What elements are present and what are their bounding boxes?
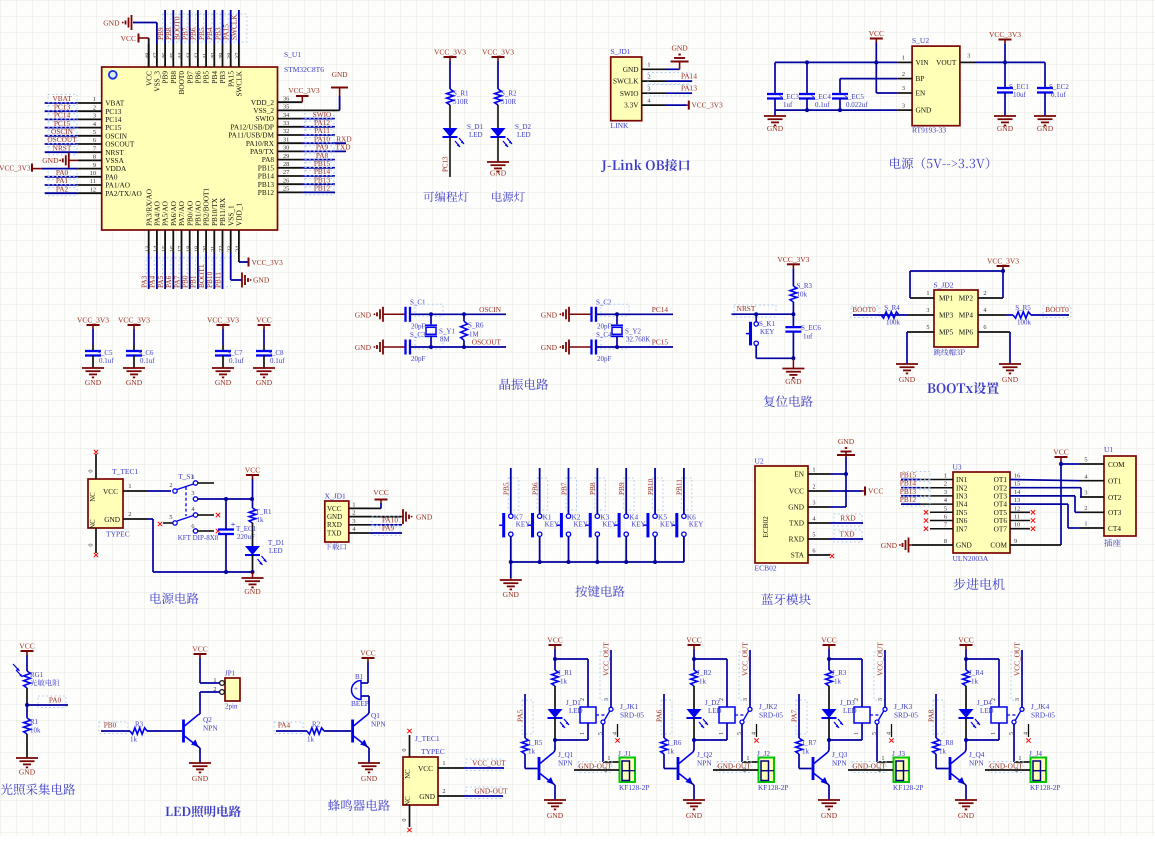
svg-text:GND: GND — [671, 44, 688, 53]
U1 pin 40 PB4 — [213, 44, 215, 67]
svg-text:LINK: LINK — [611, 121, 629, 130]
U1 socket pin 1 CT4 — [1080, 527, 1104, 529]
wire + net label PA3 — [146, 258, 157, 287]
svg-text:GND: GND — [547, 811, 564, 820]
S_U2 pin 2 BP — [897, 78, 912, 80]
wire + net label PA2 — [48, 185, 77, 196]
svg-text:7: 7 — [944, 522, 947, 529]
U3 pin 1 IN1 — [920, 479, 953, 481]
svg-text:RXD: RXD — [327, 521, 342, 529]
wire — [683, 536, 685, 562]
wire + net label BOOT1 — [204, 258, 215, 287]
svg-text:MP1: MP1 — [939, 294, 954, 303]
svg-text:S_C6: S_C6 — [138, 349, 154, 357]
svg-text:2: 2 — [604, 767, 607, 774]
svg-text:11: 11 — [90, 178, 96, 185]
svg-text:0.1uf: 0.1uf — [140, 357, 155, 365]
svg-text:S_EC6: S_EC6 — [801, 324, 821, 332]
svg-text:2: 2 — [719, 698, 725, 701]
svg-text:PB12: PB12 — [900, 495, 917, 504]
svg-text:1: 1 — [902, 55, 905, 62]
svg-text:ECB02: ECB02 — [761, 516, 770, 538]
svg-text:47: 47 — [153, 53, 160, 59]
LED diode S_D1 — [443, 128, 458, 137]
T_TEC1 pin 2 wire — [123, 518, 148, 520]
U1 pin 39 PB3 — [222, 44, 224, 67]
wire OT4 — [1010, 503, 1068, 505]
U1 pin 36 VDD_2 — [278, 101, 303, 103]
svg-text:1: 1 — [93, 96, 96, 103]
svg-text:VCC_OUT: VCC_OUT — [472, 759, 506, 768]
U2 pin 6 STA — [808, 554, 830, 556]
U3 pin 7 IN7 — [930, 528, 953, 530]
svg-text:3: 3 — [902, 85, 905, 92]
svg-text:0: 0 — [401, 748, 408, 751]
S_JD1 pin 4 3.3V — [642, 104, 666, 106]
J_TEC1 pin 2 wire + net label GND-OUT — [438, 795, 463, 797]
svg-text:1uf: 1uf — [803, 333, 813, 341]
power VCC at U1 pin 48 — [148, 38, 150, 67]
wire — [828, 649, 830, 659]
svg-text:VCC: VCC — [103, 487, 118, 496]
U1 pin 31 PA10/RX — [278, 142, 303, 144]
U1 pin 13 PA3/RX/AO — [148, 230, 150, 253]
wire collector — [554, 750, 555, 752]
U1 socket pin 5 COM — [1080, 463, 1104, 465]
crystal S_Y2 32.768K — [616, 314, 618, 324]
wire + net label OSCIN — [48, 127, 77, 138]
svg-text:3.3V: 3.3V — [624, 101, 639, 110]
svg-text:J_TEC1: J_TEC1 — [415, 734, 440, 743]
svg-text:7: 7 — [93, 145, 96, 152]
svg-text:GND: GND — [244, 587, 261, 596]
ground at U1 pin 35 — [302, 109, 339, 111]
U1 pin 44 BOOT0 — [181, 44, 183, 67]
svg-text:1: 1 — [647, 62, 650, 69]
caption 按键电路 — [575, 585, 624, 597]
resistor R2 1k + net label PA4 — [274, 722, 303, 734]
power VCC_3V3 above S_JD2 — [997, 265, 1010, 267]
svg-text:LED: LED — [469, 131, 483, 139]
svg-text:GND: GND — [192, 774, 209, 783]
transistor J_Q3 NPN — [812, 757, 815, 780]
svg-text:8: 8 — [93, 154, 96, 161]
svg-text:BOOT0: BOOT0 — [1045, 305, 1069, 314]
S_JD2 pin 1 wire to VCC_3V3 — [910, 297, 934, 299]
resistor J_R2 1k — [693, 659, 695, 670]
power VCC_3V3 above S_R1 — [444, 56, 457, 58]
svg-text:KEY: KEY — [689, 521, 703, 529]
wire — [539, 536, 541, 562]
wire + net label GND-OUT — [852, 762, 886, 773]
wire + net label PA9 — [372, 525, 400, 536]
svg-text:S_C3: S_C3 — [410, 331, 426, 339]
wire — [497, 61, 499, 89]
svg-text:16: 16 — [1014, 473, 1020, 480]
power VCC above J_R2 — [688, 644, 701, 646]
no-connect on U3 output — [1010, 511, 1030, 513]
ground at U3 pin 8 — [909, 544, 913, 546]
svg-text:20pF: 20pF — [597, 322, 612, 330]
no-connect at U2 pin 6 STA — [830, 554, 834, 558]
svg-text:32.768K: 32.768K — [626, 335, 650, 343]
svg-text:KEY: KEY — [631, 521, 645, 529]
connector S_JD1 J-Link header — [611, 57, 642, 121]
svg-text:GND: GND — [785, 377, 802, 386]
wire + rotated net label VCC_OUT — [874, 652, 885, 700]
wire + net label PA0 — [48, 168, 77, 179]
wire + rotated net label VCC_OUT — [1011, 652, 1022, 700]
wire + net label BOOT0 — [179, 14, 190, 42]
svg-text:1: 1 — [719, 732, 725, 735]
svg-text:LED: LED — [269, 547, 283, 555]
wire — [449, 105, 451, 128]
capacitor S_EC5 0.022uf — [832, 93, 848, 95]
svg-text:+: + — [231, 519, 236, 529]
svg-text:1k: 1k — [699, 678, 707, 686]
svg-text:0: 0 — [401, 818, 408, 821]
svg-text:VCC: VCC — [245, 466, 260, 475]
svg-text:TYPEC: TYPEC — [421, 747, 445, 756]
ground of power circuit — [251, 570, 255, 574]
caption 蜂鸣器电路 — [328, 799, 390, 811]
wire + net label TXD — [834, 530, 862, 542]
U1 pin 2 PC13 — [78, 110, 102, 112]
svg-text:J_R1: J_R1 — [558, 669, 573, 677]
svg-text:12: 12 — [1014, 505, 1020, 512]
svg-text:GND: GND — [419, 792, 435, 801]
wire VCC to COM — [1060, 461, 1062, 545]
wire emitter to ground — [825, 782, 830, 785]
T_TEC1 pin 1 wire — [123, 490, 148, 492]
svg-text:VCC_3V3: VCC_3V3 — [207, 316, 239, 325]
svg-text:VCC: VCC — [869, 29, 884, 38]
svg-text:COM: COM — [1108, 460, 1125, 469]
power VCC at U2 pin 2 — [830, 490, 862, 492]
svg-text:NPN: NPN — [697, 759, 712, 768]
svg-text:PC14: PC14 — [652, 305, 669, 314]
relay coil J_JK4 SRD-05 — [991, 707, 1007, 723]
svg-text:U3: U3 — [953, 463, 962, 472]
wire emitter to ground — [364, 744, 369, 748]
svg-text:VCC_3V3: VCC_3V3 — [434, 48, 466, 57]
svg-text:GND: GND — [103, 18, 120, 27]
key K4 KEY — [624, 514, 628, 518]
svg-text:3: 3 — [1084, 490, 1087, 497]
svg-text:39: 39 — [218, 53, 225, 59]
ground at U1 pin 23 VSS_1 — [230, 253, 232, 280]
wire + net label PC15 — [48, 119, 77, 130]
svg-text:J_D3: J_D3 — [840, 699, 855, 707]
power VCC at X_JD1 pin 1 — [370, 507, 381, 509]
U1 pin 45 PB8 — [172, 44, 174, 67]
svg-text:13: 13 — [144, 246, 151, 252]
ground under S_D2 — [497, 137, 499, 162]
relay switch of J_JK1 — [596, 714, 607, 716]
terminal J_J4 KF128-2P — [1031, 758, 1047, 783]
svg-text:STM32C8T6: STM32C8T6 — [284, 65, 324, 74]
wire + net label PA1 — [48, 177, 77, 188]
wire VIN rail — [775, 61, 897, 63]
svg-text:23: 23 — [226, 246, 233, 252]
svg-text:ULN2003A: ULN2003A — [953, 554, 989, 563]
U1 pin 48 VCC — [148, 44, 150, 67]
svg-text:J_J4: J_J4 — [1029, 749, 1042, 758]
svg-text:34: 34 — [283, 112, 290, 119]
U1 pin 6 OSCOUT — [78, 143, 102, 145]
wire + net label OSCIN — [415, 304, 443, 316]
svg-text:EN: EN — [916, 89, 926, 98]
svg-text:28: 28 — [283, 161, 289, 168]
ground under reset circuit — [792, 358, 794, 368]
svg-text:SWCLK: SWCLK — [235, 70, 244, 96]
svg-text:NPN: NPN — [969, 759, 984, 768]
svg-text:5: 5 — [1084, 457, 1087, 464]
power VCC above J_R1 — [549, 644, 562, 646]
svg-text:OT1: OT1 — [1108, 477, 1122, 486]
svg-text:3: 3 — [944, 489, 947, 496]
svg-text:0: 0 — [88, 543, 95, 546]
svg-text:PA0: PA0 — [49, 696, 62, 705]
wire + net label PC13 — [449, 137, 451, 177]
power VCC_3V3 above S_C5 — [87, 324, 100, 326]
U3 pin 8 GND — [912, 544, 953, 546]
capacitor S_EC4 0.1uf — [806, 62, 808, 94]
transistor Q2 NPN — [182, 720, 185, 743]
resistor J_R4 1k — [965, 659, 967, 670]
U1 pin 41 PB5 — [205, 44, 207, 67]
U1 pin 12 PA2/TX/AO — [78, 192, 102, 194]
svg-text:22: 22 — [218, 246, 225, 252]
wire contact 5 to terminal — [1013, 724, 1015, 762]
U1 pin 5 OSCIN — [78, 135, 102, 137]
wire — [755, 346, 757, 359]
resistor S_R3 10k — [790, 286, 797, 302]
svg-text:GND: GND — [42, 156, 59, 165]
svg-text:2: 2 — [991, 698, 997, 701]
svg-text:R1: R1 — [30, 718, 39, 726]
wire + net label PB10 — [653, 478, 664, 510]
svg-text:1: 1 — [944, 473, 947, 480]
svg-text:VCC_3V3: VCC_3V3 — [118, 316, 150, 325]
caption 电源灯 — [492, 191, 525, 202]
svg-text:VCC: VCC — [789, 487, 804, 496]
resistor S_R1 510R — [447, 89, 454, 105]
svg-text:GND: GND — [1002, 375, 1019, 384]
svg-text:MP5: MP5 — [939, 328, 954, 337]
wire key bus — [511, 561, 684, 563]
capacitor S_C2 20pF — [590, 307, 592, 322]
svg-text:GND: GND — [104, 515, 120, 524]
wire collector — [965, 750, 966, 752]
wire contact 5 to terminal — [741, 724, 743, 762]
svg-text:GND: GND — [355, 343, 372, 352]
svg-text:PB11: PB11 — [213, 272, 222, 288]
svg-text:15: 15 — [161, 246, 168, 252]
U1 pin 19 PB1/AO — [197, 230, 199, 253]
svg-text:+: + — [354, 685, 358, 693]
svg-text:SRD-05: SRD-05 — [759, 711, 783, 720]
svg-text:GND: GND — [490, 169, 507, 178]
svg-text:2: 2 — [1084, 505, 1087, 512]
wire + net label PB13 — [305, 176, 334, 187]
svg-text:1k: 1k — [560, 678, 568, 686]
connector X_JD1 body — [325, 501, 349, 542]
wire — [654, 536, 656, 562]
wire + net label PA7 — [179, 258, 190, 287]
svg-text:38: 38 — [226, 53, 233, 59]
svg-text:5: 5 — [812, 531, 815, 538]
resistor S_R5 100k — [1006, 314, 1013, 316]
svg-text:0: 0 — [88, 469, 95, 472]
svg-text:MP2: MP2 — [959, 294, 974, 303]
S_U2 pin 1 VIN — [897, 61, 912, 63]
svg-text:J_R2: J_R2 — [697, 669, 712, 677]
svg-text:KEY: KEY — [516, 521, 530, 529]
X_JD1 pin 1 VCC — [349, 507, 370, 509]
svg-text:2: 2 — [944, 481, 947, 488]
svg-text:J_R8: J_R8 — [939, 739, 954, 747]
wire emitter to ground — [551, 782, 556, 785]
LED diode S_D2 — [491, 128, 506, 137]
svg-text:GND: GND — [916, 106, 932, 115]
wire + net label GND-OUT — [578, 762, 612, 773]
svg-text:PB5: PB5 — [502, 482, 511, 495]
svg-text:0.1uf: 0.1uf — [1051, 91, 1066, 99]
svg-text:3: 3 — [926, 307, 929, 314]
transistor J_Q2 NPN — [677, 757, 680, 780]
wire — [965, 649, 967, 659]
svg-text:46: 46 — [161, 53, 168, 59]
wire + net label PB6 — [195, 14, 206, 42]
S_JD2 pin 2 wire — [978, 297, 1003, 299]
svg-text:43: 43 — [185, 53, 192, 59]
svg-text:2: 2 — [128, 511, 131, 518]
svg-text:VIN: VIN — [916, 58, 930, 67]
svg-text:1: 1 — [128, 483, 131, 490]
caption 光照采集电路 — [1, 783, 75, 795]
U1 pin 10 PA0 — [78, 176, 102, 178]
svg-text:EN: EN — [794, 470, 804, 479]
svg-text:2: 2 — [169, 482, 172, 489]
U1 pin 32 PA11/USB/DM — [278, 134, 303, 136]
svg-text:11: 11 — [1014, 514, 1020, 521]
svg-text:GND: GND — [332, 70, 348, 79]
svg-text:GND: GND — [997, 124, 1014, 133]
U1 pin 7 NRST — [78, 151, 102, 153]
svg-text:PA8: PA8 — [927, 709, 936, 722]
svg-text:PB11: PB11 — [675, 479, 684, 495]
wire + net label PB15 — [903, 472, 930, 482]
svg-text:VCC_OUT: VCC_OUT — [602, 642, 611, 676]
wire + net label PB7 — [187, 14, 198, 42]
svg-text:VCC_3V3: VCC_3V3 — [692, 101, 724, 110]
power VCC above S_U2 — [870, 38, 883, 40]
no-connect on U3 input — [924, 527, 928, 531]
U2 pin 3 GND — [808, 506, 830, 508]
transistor J_Q4 NPN — [949, 757, 952, 780]
svg-text:2: 2 — [854, 698, 860, 701]
svg-text:KF128-2P: KF128-2P — [893, 783, 923, 792]
svg-text:41: 41 — [202, 53, 209, 59]
svg-text:2: 2 — [442, 788, 445, 795]
ground under S_C8 — [253, 367, 275, 369]
svg-text:OSCOUT: OSCOUT — [472, 338, 502, 347]
capacitor S_C5 0.1uf — [92, 329, 94, 345]
module U2 ECB02 body — [755, 466, 808, 563]
wire + rotated net label VCC_OUT — [600, 652, 611, 700]
svg-text:T_D1: T_D1 — [268, 539, 285, 547]
wire + net label VBAT — [48, 95, 77, 106]
svg-text:GND: GND — [838, 437, 855, 446]
svg-text:NPN: NPN — [832, 759, 847, 768]
relay switch of J_JK2 — [735, 714, 746, 716]
crystal S_Y1 8M — [430, 314, 432, 324]
U2 pin 5 RXD — [808, 538, 830, 540]
svg-text:GND: GND — [623, 65, 639, 74]
LED diode J_D1 — [548, 709, 563, 718]
svg-text:1k: 1k — [834, 678, 842, 686]
wire + net label PA6 — [171, 258, 182, 287]
svg-text:3: 3 — [191, 490, 194, 497]
relay coil J_JK1 SRD-05 — [580, 707, 596, 723]
resistor R1 10k — [26, 705, 28, 718]
caption 电源电路 — [151, 592, 199, 603]
U1 pin 30 PA9/TX — [278, 150, 303, 152]
svg-text:J_R5: J_R5 — [528, 739, 543, 747]
svg-text:45: 45 — [169, 53, 176, 59]
U1 pin 42 PB6 — [197, 44, 199, 67]
svg-text:33: 33 — [283, 120, 289, 127]
svg-text:PB12: PB12 — [314, 184, 331, 193]
wire + net label PC14 — [48, 111, 77, 122]
svg-text:17: 17 — [177, 246, 184, 252]
power VCC_3V3 above S_C6 — [128, 324, 141, 326]
wire — [792, 268, 794, 286]
svg-text:S_R6: S_R6 — [468, 321, 484, 329]
svg-text:1: 1 — [580, 732, 586, 735]
terminal J_J1 KF128-2P — [620, 758, 636, 783]
svg-text:NC: NC — [90, 519, 97, 529]
svg-text:S_JD1: S_JD1 — [611, 47, 631, 56]
svg-text:20pF: 20pF — [411, 355, 426, 363]
svg-text:S_JD2: S_JD2 — [934, 281, 954, 290]
svg-text:J_D4: J_D4 — [977, 699, 992, 707]
no-connect contact 4 — [1028, 724, 1030, 737]
svg-text:2: 2 — [878, 767, 881, 774]
wire emitter to ground — [962, 782, 967, 785]
svg-text:40: 40 — [210, 53, 217, 59]
svg-text:PB6: PB6 — [530, 482, 539, 495]
capacitor S_EC3 1uf — [774, 62, 776, 94]
wire + net label PA13 — [648, 85, 690, 97]
power VCC_3V3 at U1 pin 24 VDD_1 — [238, 253, 240, 262]
svg-text:VCC: VCC — [360, 649, 375, 658]
wire + net label PB5 — [204, 14, 215, 42]
svg-text:VCC: VCC — [327, 505, 342, 513]
svg-text:VCC: VCC — [821, 636, 836, 645]
svg-text:U1: U1 — [1104, 445, 1113, 454]
svg-text:1: 1 — [926, 290, 929, 297]
svg-text:16: 16 — [169, 246, 176, 252]
caption 复位电路 — [764, 395, 813, 407]
svg-text:GND: GND — [767, 124, 784, 133]
svg-text:X_JD1: X_JD1 — [325, 492, 347, 501]
svg-text:1k: 1k — [802, 748, 810, 756]
power VCC_3V3 at U1 pin 9 VDDA — [31, 164, 33, 172]
wire + net label PA12 — [305, 118, 334, 129]
svg-text:S_EC4: S_EC4 — [811, 93, 831, 101]
